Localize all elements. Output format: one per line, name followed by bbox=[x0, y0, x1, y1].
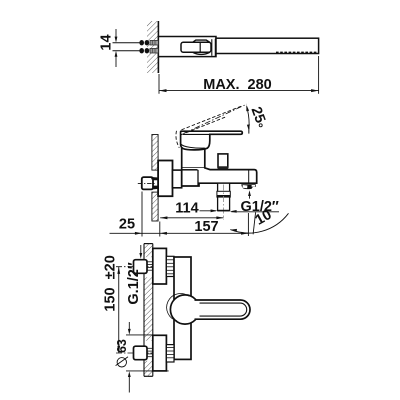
shared arrow at wall face bbox=[160, 232, 167, 235]
nut chamfer wedges (side view) bbox=[153, 177, 158, 180]
svg-text:150 ±20: 150 ±20 bbox=[103, 255, 119, 311]
cartridge cap upper dome (top view) bbox=[193, 40, 210, 42]
body column (front view) bbox=[174, 257, 191, 359]
lever grip (top view) bbox=[181, 42, 211, 52]
svg-text:14: 14 bbox=[98, 34, 114, 50]
svg-text:63: 63 bbox=[115, 339, 129, 353]
wall pipe centerline (side view) bbox=[138, 182, 156, 184]
extension line outlet axis bbox=[247, 213, 249, 236]
cap side edge (top view) bbox=[211, 39, 213, 56]
extension line wall face below bbox=[159, 222, 161, 237]
25 outside arrow left bbox=[135, 232, 142, 235]
svg-text:157: 157 bbox=[194, 219, 218, 235]
wall flange (side view) bbox=[158, 161, 172, 197]
extension line nut back face bbox=[141, 192, 143, 237]
diameter symbol bbox=[117, 358, 126, 367]
svg-text:114: 114 bbox=[175, 201, 198, 217]
bottom flange (front view) bbox=[153, 335, 167, 371]
dimension dia 63 line (front view) bbox=[128, 322, 130, 330]
handle circle (front view) bbox=[170, 295, 199, 324]
body and spout silhouette (side view) bbox=[182, 148, 257, 186]
10 degree tilted arm (side view) bbox=[253, 212, 256, 234]
dimension MAX. 280 line bbox=[158, 74, 160, 94]
svg-text:25: 25 bbox=[119, 217, 135, 233]
top nut (front view) bbox=[134, 260, 148, 274]
flange centerline (side view) bbox=[151, 178, 176, 180]
supply thread upper (top view) bbox=[150, 40, 158, 45]
pipe band (side view) bbox=[217, 191, 230, 197]
handle cap and lever (side view) bbox=[181, 131, 243, 150]
dashed raised lever (side view) bbox=[182, 106, 242, 130]
wall face line (top view) bbox=[157, 21, 159, 73]
wall hatch upper (side view) bbox=[152, 135, 158, 171]
wall hatch lower (side view) bbox=[152, 192, 158, 221]
lever inner seam (front view) bbox=[200, 303, 247, 316]
bottom nut (front view) bbox=[134, 346, 148, 360]
pipe bottom edge (side view) bbox=[218, 210, 230, 212]
housing seam (side view) bbox=[182, 167, 204, 169]
shower outlet pipe (side view) bbox=[218, 183, 230, 210]
25 degree arm dash-dot (side view) bbox=[184, 104, 247, 133]
cap bottom curve (side view) bbox=[181, 144, 205, 148]
cartridge cap lower bowl (top view) bbox=[193, 52, 210, 54]
top flange (front view) bbox=[153, 248, 167, 284]
dimension 25 degree arc and arrows bbox=[247, 107, 250, 130]
dimension G1/2 leader arrow up (side view) bbox=[249, 194, 251, 199]
pipe centerline (side view) bbox=[223, 185, 225, 220]
supply thread lower (top view) bbox=[150, 48, 158, 53]
supply nut lower (top view) bbox=[139, 48, 144, 53]
pipe diameter dim line (side view) bbox=[200, 210, 216, 212]
G.1/2 leader arrow (front view) bbox=[140, 245, 142, 254]
union nut behind wall (side view) bbox=[142, 177, 153, 189]
spout end seam (side view) bbox=[248, 170, 250, 183]
dia 63 extension lines bbox=[126, 334, 153, 336]
handle escutcheon inner arc (front view) bbox=[167, 294, 189, 321]
svg-text:G.1/2″: G.1/2″ bbox=[126, 262, 142, 304]
dimension 14 line bbox=[115, 29, 117, 38]
wall hatch (top view) bbox=[147, 21, 158, 73]
union block (side view) bbox=[173, 170, 182, 188]
spout outlet nozzle (side view) bbox=[241, 184, 256, 189]
top inlet centerline (front view) bbox=[116, 266, 190, 268]
supply nut upper (top view) bbox=[139, 40, 144, 45]
svg-text:MAX. 280: MAX. 280 bbox=[203, 77, 272, 93]
dimension 114 line bbox=[160, 217, 223, 219]
10 degree arc bbox=[230, 213, 288, 233]
spout (top view) bbox=[216, 38, 319, 53]
lever divider line (top view) bbox=[199, 42, 201, 52]
bottom inlet centerline (front view) bbox=[116, 352, 168, 354]
dimension 157 and 25 shared line bbox=[110, 232, 249, 234]
body shoulder (side view) bbox=[182, 169, 198, 171]
body step vertical (side view) bbox=[197, 170, 199, 186]
157 right arrow bbox=[241, 232, 248, 235]
wall strip (front view) bbox=[144, 243, 153, 245]
aerator dashed line (top view) bbox=[276, 52, 318, 54]
handle lever (front view) bbox=[195, 300, 250, 319]
faucet body (top view) bbox=[158, 37, 216, 57]
dimension 150 +-20 line (front view) bbox=[118, 267, 120, 353]
top thread nipple (front view) bbox=[166, 256, 174, 276]
bottom thread nipple (front view) bbox=[166, 345, 174, 362]
supply pipe upper (top view) bbox=[113, 42, 141, 44]
lever underside line (side view) bbox=[183, 133, 210, 135]
supply pipe lower (top view) bbox=[113, 50, 141, 52]
diverter knob band (side view) bbox=[218, 167, 229, 170]
diverter knob (side view) bbox=[218, 154, 228, 167]
